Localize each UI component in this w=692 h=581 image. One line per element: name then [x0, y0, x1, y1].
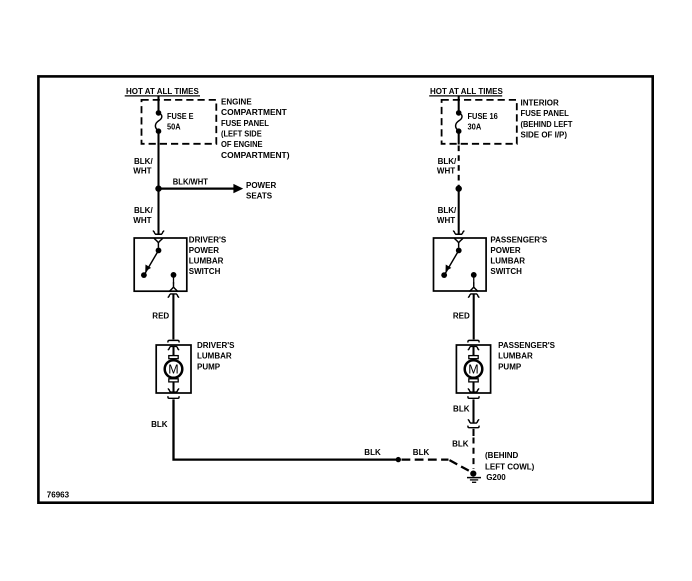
svg-text:ENGINE: ENGINE — [221, 97, 252, 106]
value label FUSE E 50A — [167, 112, 194, 132]
switch S1 contacts — [141, 238, 178, 292]
svg-text:DRIVER'S: DRIVER'S — [197, 341, 235, 350]
wire: dashed to ground — [472, 438, 474, 470]
ground caption (BEHIND LEFT COWL) G200 — [485, 451, 535, 482]
svg-text:50A: 50A — [167, 123, 181, 132]
svg-text:POWER: POWER — [490, 246, 520, 255]
ground G200 — [467, 471, 481, 483]
svg-text:BLK/: BLK/ — [438, 157, 457, 166]
svg-text:PUMP: PUMP — [498, 362, 522, 371]
svg-text:WHT: WHT — [133, 167, 151, 176]
pump M2 motor — [465, 346, 483, 392]
wire: underline to fuse — [458, 97, 460, 112]
wire: dashed diagonal to ground — [450, 460, 472, 472]
wire: underline to fuse — [157, 97, 159, 112]
svg-text:SWITCH: SWITCH — [189, 267, 221, 276]
fuse F2 FUSE 16 30A — [456, 110, 462, 134]
net label BLK/WHT (upper left) — [133, 157, 153, 176]
wire: junction to switch — [458, 189, 460, 235]
wire: pump down and along bottom — [174, 399, 399, 459]
panel caption — [221, 97, 290, 159]
svg-text:PASSENGER'S: PASSENGER'S — [490, 235, 548, 244]
svg-text:WHT: WHT — [437, 216, 455, 225]
svg-text:PUMP: PUMP — [197, 362, 221, 371]
destination label POWER SEATS — [246, 181, 276, 201]
switch S2 contacts — [441, 238, 478, 292]
interior fuse panel box (dashed) — [442, 100, 517, 144]
pin: connector out of switch — [468, 294, 479, 298]
pin: fork above pump — [168, 340, 179, 342]
svg-text:WHT: WHT — [133, 216, 151, 225]
svg-text:30A: 30A — [468, 123, 482, 132]
svg-text:76963: 76963 — [47, 491, 70, 500]
pin: fork above pump — [468, 340, 479, 342]
caption DRIVER'S POWER LUMBAR SWITCH — [189, 235, 227, 276]
pin: connector into switch — [453, 231, 464, 235]
wire: connector to dashed — [472, 429, 474, 436]
switch S1 driver's power lumbar switch box — [134, 238, 187, 291]
svg-text:HOT AT ALL TIMES: HOT AT ALL TIMES — [430, 87, 503, 96]
pin: inline connector C (arrow + fork) — [468, 419, 479, 427]
svg-text:COMPARTMENT: COMPARTMENT — [221, 108, 287, 117]
panel caption — [521, 98, 573, 139]
svg-text:LUMBAR: LUMBAR — [490, 257, 525, 266]
svg-text:BLK: BLK — [452, 439, 469, 448]
svg-text:HOT AT ALL TIMES: HOT AT ALL TIMES — [126, 87, 199, 96]
svg-text:POWER: POWER — [246, 181, 276, 190]
wire: dashed from fuse panel to junction — [458, 146, 460, 187]
pin: fork below pump — [468, 396, 479, 398]
pin: connector into switch — [153, 231, 164, 235]
svg-text:(BEHIND LEFT: (BEHIND LEFT — [521, 120, 573, 129]
wire: junction to switch — [157, 189, 159, 235]
node: junction — [456, 185, 462, 191]
svg-text:SIDE OF I/P): SIDE OF I/P) — [521, 131, 568, 140]
node: junction to power seats — [155, 185, 161, 191]
pin: connector out of switch — [168, 294, 179, 298]
svg-text:POWER: POWER — [189, 246, 219, 255]
pump M1 driver's lumbar pump box — [156, 345, 191, 393]
caption PASSENGER'S LUMBAR PUMP — [498, 341, 556, 371]
net label BLK/WHT (upper right) — [437, 157, 457, 176]
svg-text:LUMBAR: LUMBAR — [189, 257, 224, 266]
net label BLK/WHT (lower right) — [437, 206, 457, 225]
wire: switch to pump — [172, 294, 174, 340]
svg-text:BLK: BLK — [453, 405, 470, 414]
svg-text:PASSENGER'S: PASSENGER'S — [498, 341, 556, 350]
net label BLK/WHT (lower left) — [133, 206, 153, 225]
svg-text:COMPARTMENT): COMPARTMENT) — [221, 151, 290, 160]
svg-text:BLK/: BLK/ — [134, 206, 153, 215]
switch S2 passenger's power lumbar switch box — [434, 238, 487, 291]
svg-text:FUSE 16: FUSE 16 — [468, 112, 499, 121]
wire: branch to power seats arrow — [159, 184, 244, 193]
wire: pump to inline connector — [472, 399, 474, 423]
caption DRIVER'S LUMBAR PUMP — [197, 341, 235, 371]
pump M2 passenger's lumbar pump box — [456, 345, 490, 393]
svg-text:SEATS: SEATS — [246, 192, 273, 201]
power source label HOT AT ALL TIMES (right) — [429, 87, 503, 96]
svg-text:OF ENGINE: OF ENGINE — [221, 140, 263, 149]
pin: fork below pump — [168, 396, 179, 398]
svg-text:BLK/: BLK/ — [438, 206, 457, 215]
svg-text:INTERIOR: INTERIOR — [521, 98, 559, 107]
wire: switch to pump — [473, 294, 475, 340]
value label FUSE 16 30A — [468, 112, 499, 132]
engine compartment fuse panel box (dashed) — [142, 100, 217, 144]
svg-text:FUSE E: FUSE E — [167, 112, 194, 121]
svg-text:BLK/WHT: BLK/WHT — [173, 178, 208, 187]
svg-text:BLK: BLK — [413, 448, 430, 457]
wire: dashed to ground — [402, 458, 449, 460]
svg-text:BLK: BLK — [151, 420, 168, 429]
svg-text:(BEHIND: (BEHIND — [485, 451, 519, 460]
wire: fuse to box edge — [458, 133, 460, 145]
svg-text:RED: RED — [152, 311, 169, 320]
svg-text:FUSE PANEL: FUSE PANEL — [221, 119, 269, 128]
wire: fuse to junction — [157, 133, 159, 187]
svg-text:RED: RED — [453, 311, 470, 320]
svg-text:G200: G200 — [486, 473, 506, 482]
svg-text:LUMBAR: LUMBAR — [498, 352, 533, 361]
svg-text:BLK/: BLK/ — [134, 157, 153, 166]
svg-text:WHT: WHT — [437, 167, 455, 176]
pump M1 motor — [165, 346, 183, 392]
power source label HOT AT ALL TIMES (left) — [125, 87, 200, 96]
caption PASSENGER'S POWER LUMBAR SWITCH — [490, 235, 548, 276]
svg-text:LUMBAR: LUMBAR — [197, 352, 232, 361]
svg-text:FUSE PANEL: FUSE PANEL — [521, 109, 570, 118]
fuse F1 FUSE E 50A — [155, 110, 161, 134]
svg-text:SWITCH: SWITCH — [490, 267, 522, 276]
svg-text:LEFT COWL): LEFT COWL) — [485, 462, 535, 471]
svg-text:BLK: BLK — [364, 448, 381, 457]
node: bottom splice — [396, 457, 401, 462]
svg-text:(LEFT SIDE: (LEFT SIDE — [221, 130, 262, 139]
svg-text:DRIVER'S: DRIVER'S — [189, 235, 227, 244]
